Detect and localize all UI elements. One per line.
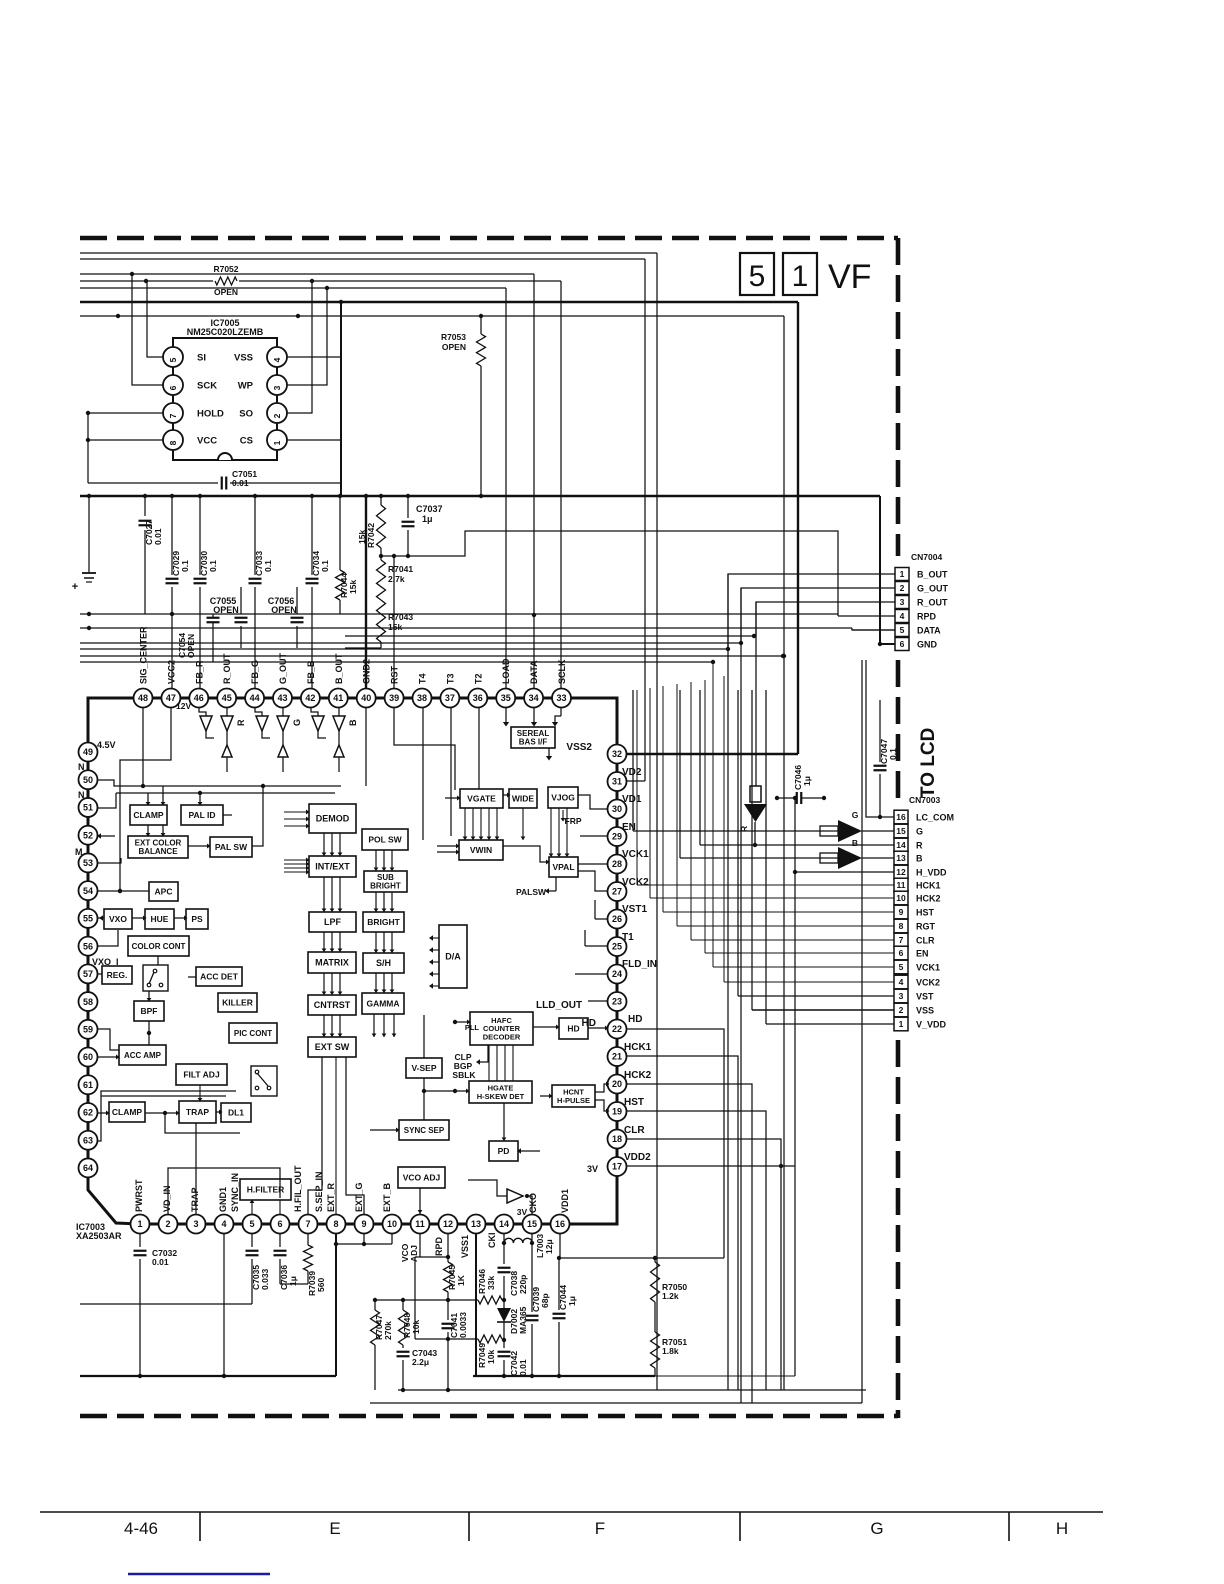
wire inner frame bottom right [861, 660, 863, 1403]
svg-text:12μ: 12μ [544, 1239, 554, 1254]
pin 32 VSS2 [608, 745, 627, 764]
svg-text:37: 37 [445, 693, 455, 703]
block HD [559, 1018, 588, 1039]
svg-text:+: + [72, 581, 78, 593]
svg-text:DATA: DATA [917, 626, 941, 636]
wire cn7003 feed y940 [691, 939, 894, 941]
wire pd [503, 1103, 505, 1141]
svg-text:PALSW: PALSW [516, 887, 547, 897]
wire VSS2 thick [797, 302, 799, 754]
svg-text:2.2μ: 2.2μ [412, 1357, 429, 1367]
svg-text:46: 46 [194, 693, 204, 703]
svg-text:11: 11 [415, 1219, 425, 1229]
resistor R7042 15k [380, 496, 382, 505]
resistor R7052 [215, 277, 237, 285]
svg-text:11: 11 [897, 880, 906, 890]
svg-text:VCK1: VCK1 [622, 849, 649, 860]
wire frp stub [562, 810, 564, 818]
pin 21 HCK1 [608, 1047, 627, 1066]
wire h.filter pins [251, 1200, 253, 1214]
footer zone line [40, 1511, 1103, 1513]
pin 64 [79, 1158, 98, 1177]
block VGATE [460, 789, 503, 808]
svg-text:H.FILTER: H.FILTER [247, 1184, 285, 1194]
svg-text:49: 49 [83, 747, 93, 757]
capacitor C7039 68p [531, 1243, 533, 1312]
svg-text:VD2: VD2 [622, 767, 642, 778]
wire T4 T3 T2 risers [422, 708, 424, 840]
pin 33 SCLK [552, 689, 571, 708]
svg-text:0.01: 0.01 [518, 1359, 528, 1376]
svg-text:OPEN: OPEN [214, 287, 238, 297]
svg-text:62: 62 [83, 1108, 93, 1118]
block PD [489, 1141, 518, 1161]
svg-text:39: 39 [389, 693, 399, 703]
svg-text:10k: 10k [411, 1320, 421, 1334]
wire vgate cluster [464, 808, 466, 840]
pin 11 [411, 1215, 430, 1234]
wire vpal to pins [578, 863, 608, 865]
svg-text:HCK2: HCK2 [916, 894, 941, 904]
svg-text:8: 8 [899, 921, 904, 931]
svg-text:15k: 15k [348, 580, 358, 594]
wire cn7003 feed y953 [705, 952, 894, 954]
wire cn7004 b_out [728, 574, 895, 649]
switch S2 [251, 1066, 277, 1096]
svg-text:9: 9 [899, 907, 904, 917]
svg-text:560: 560 [316, 1278, 326, 1292]
resistor R7043 15k [377, 600, 386, 642]
svg-text:220p: 220p [518, 1275, 528, 1294]
pin 38 T4 [413, 689, 432, 708]
blue footer mark [128, 1573, 270, 1576]
svg-text:4.5V: 4.5V [97, 740, 116, 750]
wire ext sw down [308, 1057, 322, 1214]
svg-text:B_OUT: B_OUT [917, 570, 948, 580]
CN7003 pin 4 VCK2 [894, 975, 908, 989]
svg-text:VST: VST [916, 992, 934, 1002]
svg-text:ACC AMP: ACC AMP [124, 1051, 162, 1060]
svg-text:V-SEP: V-SEP [411, 1063, 436, 1073]
block HUE [145, 909, 174, 929]
pin 37 T3 [440, 689, 459, 708]
wire wrap verticals [727, 574, 729, 1390]
pin 13 [467, 1215, 486, 1234]
block DL1 [221, 1103, 251, 1122]
page border dashed right [896, 238, 901, 556]
pin 45 R_OUT [217, 689, 236, 708]
wire vwin left feeds [437, 845, 459, 847]
svg-text:LPF: LPF [324, 917, 342, 927]
svg-text:0.1: 0.1 [320, 560, 330, 572]
block COLOR CONT [128, 936, 189, 956]
block PAL SW [210, 837, 252, 857]
svg-text:HST: HST [624, 1097, 644, 1108]
pin 26 VST1 [608, 910, 627, 929]
pin 43 G_OUT [273, 689, 292, 708]
svg-text:FB_R: FB_R [194, 660, 204, 684]
svg-text:PS: PS [191, 914, 203, 924]
svg-text:VCK1: VCK1 [916, 963, 940, 973]
svg-text:1K: 1K [456, 1274, 466, 1286]
wire cn7003 lower feeds [738, 995, 894, 997]
amp B [680, 857, 838, 859]
svg-text:LLD_OUT: LLD_OUT [536, 1000, 582, 1011]
svg-text:25: 25 [612, 942, 622, 952]
CN7003 pin 15 G [894, 824, 908, 838]
wire bottom rails [80, 1375, 336, 1377]
pin 61 [79, 1075, 98, 1094]
svg-text:3: 3 [272, 385, 282, 390]
svg-text:M: M [75, 847, 83, 857]
wire pin13 vss1 thick [475, 1234, 477, 1376]
wire colorcont switch bpf chain [157, 956, 159, 965]
svg-text:GND1: GND1 [218, 1187, 228, 1212]
svg-text:3: 3 [899, 991, 904, 1001]
pin 62 [79, 1103, 98, 1122]
svg-text:HOLD: HOLD [197, 409, 224, 420]
IC7005 pin 3 WP [267, 375, 287, 395]
svg-text:FLD_IN: FLD_IN [622, 959, 657, 970]
svg-text:15: 15 [527, 1219, 537, 1229]
pin 16 [551, 1215, 570, 1234]
svg-text:7: 7 [899, 935, 904, 945]
svg-text:1.8k: 1.8k [662, 1346, 679, 1356]
wire cn7004 r_out [756, 602, 895, 636]
pin 20 HCK2 [608, 1075, 627, 1094]
resistor R7047 270k [374, 1300, 376, 1310]
svg-text:4-46: 4-46 [124, 1519, 158, 1538]
svg-text:CLR: CLR [916, 936, 935, 946]
inductor L7003 [503, 1234, 505, 1243]
svg-text:1μ: 1μ [802, 776, 812, 786]
buffer amp G [256, 716, 268, 731]
svg-text:0.1: 0.1 [263, 560, 273, 572]
wire vdd1 to r7050 [560, 1234, 724, 1258]
svg-text:0.033: 0.033 [260, 1268, 270, 1290]
inverter triangle [507, 1189, 523, 1203]
resistor R7046 33k [478, 1296, 502, 1304]
svg-text:12: 12 [896, 867, 906, 877]
pin 6 [271, 1215, 290, 1234]
wire pin8 thick down [335, 1234, 337, 1376]
svg-text:BRIGHT: BRIGHT [367, 917, 400, 927]
wire v-sep to sync [422, 1089, 426, 1093]
svg-text:FB_G: FB_G [250, 660, 260, 684]
pin 14 [495, 1215, 514, 1234]
wire vgate left [445, 797, 460, 799]
svg-text:LC_COM: LC_COM [916, 813, 954, 823]
capacitor C7030 [199, 496, 201, 575]
svg-text:50: 50 [83, 775, 93, 785]
pin 10 [383, 1215, 402, 1234]
wire hafc left [455, 1021, 470, 1023]
pin 60 [79, 1048, 98, 1067]
svg-text:6: 6 [168, 385, 178, 390]
svg-text:PAL ID: PAL ID [188, 810, 215, 820]
svg-text:0.1: 0.1 [888, 748, 898, 760]
pin 58 [79, 992, 98, 1011]
CN7003 pin 3 VST [894, 989, 908, 1003]
svg-text:55: 55 [83, 914, 93, 924]
svg-text:14: 14 [499, 1219, 509, 1229]
wire cn7003 feed y912 [663, 911, 894, 913]
pin 4 [215, 1215, 234, 1234]
svg-text:18: 18 [612, 1134, 622, 1144]
svg-text:B_OUT: B_OUT [334, 653, 344, 684]
wire r7046 row [375, 1299, 478, 1301]
svg-text:R: R [739, 826, 749, 832]
svg-text:33: 33 [556, 693, 566, 703]
svg-text:23: 23 [612, 997, 622, 1007]
svg-text:1: 1 [899, 1019, 904, 1029]
CN7003 pin 9 HST [894, 905, 908, 919]
svg-text:21: 21 [612, 1052, 622, 1062]
wire cn7004 gnd [880, 496, 895, 644]
pin 23 LLD_OUT [608, 992, 627, 1011]
svg-text:VDD1: VDD1 [560, 1189, 570, 1213]
svg-text:0.01: 0.01 [232, 478, 249, 488]
wire cn7003 feed y926 [677, 925, 894, 927]
svg-text:H: H [1056, 1519, 1068, 1538]
svg-text:R_OUT: R_OUT [222, 653, 232, 684]
svg-text:CLAMP: CLAMP [112, 1107, 143, 1117]
svg-text:GAMMA: GAMMA [366, 998, 399, 1008]
block EXT COLOR [128, 836, 188, 858]
pin 53 [79, 853, 98, 872]
CN7003 pin 8 RGT [894, 919, 908, 933]
block BRIGHT [363, 912, 404, 932]
pin 49 [79, 743, 98, 762]
svg-text:PAL SW: PAL SW [215, 842, 248, 852]
svg-text:RPD: RPD [434, 1236, 444, 1256]
svg-text:RGT: RGT [916, 922, 936, 932]
IC7005 pin 5 SI [163, 347, 183, 367]
svg-text:30: 30 [612, 804, 622, 814]
CN7004 pin 2 G_OUT [895, 582, 909, 595]
svg-text:VSS: VSS [234, 353, 253, 364]
svg-text:SCK: SCK [197, 381, 217, 392]
svg-text:10: 10 [896, 893, 906, 903]
svg-text:R7053: R7053 [441, 332, 466, 342]
pin 5 [243, 1215, 262, 1234]
svg-text:6: 6 [899, 948, 904, 958]
pin 34 DATA [524, 689, 543, 708]
ground symbol [88, 496, 90, 573]
block APC [149, 882, 178, 901]
svg-text:13: 13 [471, 1219, 481, 1229]
svg-text:VD1: VD1 [622, 794, 642, 805]
CN7003 pin 6 EN [894, 946, 908, 960]
page border dashed top [80, 236, 898, 241]
svg-text:0.01: 0.01 [152, 1257, 169, 1267]
svg-text:VCK2: VCK2 [916, 978, 940, 988]
svg-text:OPEN: OPEN [442, 342, 466, 352]
svg-text:OPEN: OPEN [186, 634, 196, 658]
svg-text:60: 60 [83, 1052, 93, 1062]
wire nested rect top right [783, 316, 785, 1390]
svg-text:17: 17 [612, 1162, 622, 1172]
svg-text:4: 4 [221, 1219, 226, 1229]
svg-text:SCLK: SCLK [557, 659, 567, 684]
svg-text:H-SKEW DET: H-SKEW DET [477, 1092, 525, 1101]
amp G [633, 830, 838, 832]
svg-text:COLOR CONT: COLOR CONT [132, 942, 186, 951]
svg-text:0.1: 0.1 [208, 560, 218, 572]
svg-text:PD: PD [498, 1146, 510, 1156]
svg-text:24: 24 [612, 969, 622, 979]
wire top bus lines [80, 252, 657, 254]
svg-text:BAS I/F: BAS I/F [519, 738, 548, 747]
svg-text:G: G [852, 810, 859, 820]
block PIC CONT [229, 1023, 277, 1043]
svg-text:35: 35 [501, 693, 511, 703]
svg-text:FILT ADJ: FILT ADJ [183, 1069, 220, 1079]
resistor R7051 1.8k [651, 1332, 660, 1368]
svg-text:VST1: VST1 [622, 904, 647, 915]
svg-text:HCK2: HCK2 [624, 1070, 652, 1081]
block EXT SW [308, 1037, 356, 1057]
svg-text:1.2k: 1.2k [662, 1291, 679, 1301]
wire right long verticals [644, 259, 646, 781]
page border dashed bottom [80, 1414, 898, 1419]
svg-text:8: 8 [333, 1219, 338, 1229]
pin 50 [79, 770, 98, 789]
pin 42 FB_B [301, 689, 320, 708]
svg-text:7: 7 [305, 1219, 310, 1229]
wire pin59 60 accamp [98, 1029, 119, 1050]
svg-text:E: E [329, 1519, 340, 1538]
svg-text:N: N [78, 762, 85, 772]
svg-text:36: 36 [473, 693, 483, 703]
svg-text:VJOG: VJOG [551, 792, 575, 802]
wire hafc outputs [533, 1026, 559, 1028]
wire hgate left [455, 1090, 469, 1092]
wire r feed [700, 844, 894, 846]
svg-text:15k: 15k [388, 622, 402, 632]
svg-text:VSS: VSS [916, 1006, 934, 1016]
svg-text:61: 61 [83, 1080, 93, 1090]
svg-text:VGATE: VGATE [467, 793, 496, 803]
svg-text:CKI: CKI [487, 1233, 497, 1249]
svg-text:S/H: S/H [376, 958, 391, 968]
svg-text:5: 5 [900, 625, 905, 635]
wire pin4 down [223, 1234, 225, 1376]
svg-text:19: 19 [612, 1107, 622, 1117]
svg-text:B: B [916, 854, 923, 864]
svg-text:2: 2 [165, 1219, 170, 1229]
svg-text:T3: T3 [445, 673, 455, 684]
block KILLER [218, 993, 257, 1012]
wire cn7004 rpd [838, 615, 895, 617]
pin 8 [327, 1215, 346, 1234]
wire hgate det [488, 1045, 490, 1081]
CN7004 pin 4 RPD [895, 610, 909, 623]
svg-text:7: 7 [168, 413, 178, 418]
wire vwin right [503, 846, 549, 862]
block D/A [439, 925, 467, 988]
svg-text:2: 2 [272, 413, 282, 418]
svg-text:EXT_B: EXT_B [382, 1182, 392, 1212]
svg-text:CLR: CLR [624, 1125, 645, 1136]
CN7003 pin 1 V_VDD [894, 1017, 908, 1031]
svg-text:2: 2 [900, 583, 905, 593]
svg-text:8: 8 [168, 440, 178, 445]
wire pin12 rpd / resistor R7045 1K [447, 1234, 449, 1262]
wire pin 26,25,24,23 stubs [595, 918, 608, 920]
svg-text:BPF: BPF [141, 1006, 158, 1016]
svg-text:DECODER: DECODER [483, 1032, 521, 1041]
CN7003 pin 10 HCK2 [894, 891, 908, 905]
svg-text:HD: HD [567, 1023, 579, 1033]
wire internal feeds [142, 708, 144, 786]
svg-text:INT/EXT: INT/EXT [315, 862, 350, 872]
svg-text:1μ: 1μ [422, 514, 433, 524]
svg-text:DL1: DL1 [228, 1107, 244, 1117]
buffer amp R [200, 716, 212, 731]
pin 25 T1 [608, 937, 627, 956]
svg-text:54: 54 [83, 886, 93, 896]
svg-text:WIDE: WIDE [512, 793, 535, 803]
svg-text:TRAP: TRAP [186, 1107, 209, 1117]
wire junction dots [130, 272, 134, 276]
pin 31 VD2 [608, 772, 627, 791]
svg-text:EXT SW: EXT SW [315, 1042, 350, 1052]
svg-text:29: 29 [612, 832, 622, 842]
svg-text:D/A: D/A [445, 952, 461, 962]
wire v-sep stub [423, 1078, 425, 1120]
svg-text:4: 4 [272, 357, 282, 362]
block DEMOD [309, 804, 356, 833]
block CLAMP [109, 1102, 145, 1122]
svg-text:VDD2: VDD2 [624, 1152, 651, 1163]
capacitor C7041 0.0033 [447, 1300, 449, 1320]
capacitor C7033 [254, 496, 256, 575]
svg-text:VPAL: VPAL [552, 862, 574, 872]
svg-text:270k: 270k [383, 1321, 393, 1340]
svg-text:HUE: HUE [151, 914, 169, 924]
svg-text:16: 16 [555, 1219, 565, 1229]
pin 46 FB_R [189, 689, 208, 708]
svg-text:SYNC SEP: SYNC SEP [404, 1126, 445, 1135]
svg-text:59: 59 [83, 1025, 93, 1035]
svg-text:N: N [78, 790, 85, 800]
svg-text:26: 26 [612, 914, 622, 924]
wire bundles between blocks [323, 833, 325, 856]
resistor R7048 10k [401, 1298, 405, 1302]
IC IC7003 XA2503AR outline [88, 698, 617, 1224]
svg-text:ADJ: ADJ [409, 1245, 419, 1262]
wire pin5 to left rail [80, 1303, 252, 1305]
svg-text:57: 57 [83, 969, 93, 979]
wire accdet feed [188, 976, 196, 978]
wire v-sep top [423, 1015, 425, 1058]
svg-text:WP: WP [238, 381, 254, 392]
svg-text:REG.: REG. [107, 970, 128, 980]
svg-text:G: G [916, 827, 923, 837]
block INT/EXT [309, 856, 356, 877]
svg-text:APC: APC [155, 886, 173, 896]
svg-text:31: 31 [612, 777, 622, 787]
svg-text:27: 27 [612, 887, 622, 897]
svg-text:CS: CS [240, 436, 253, 447]
block ACC DET [196, 967, 242, 986]
svg-text:DEMOD: DEMOD [316, 814, 350, 824]
label 5 1 VF [740, 253, 774, 295]
svg-text:SIG_CENTER: SIG_CENTER [139, 626, 149, 684]
svg-text:16: 16 [896, 812, 906, 822]
wire LOAD DATA SCLK risers [505, 288, 507, 689]
